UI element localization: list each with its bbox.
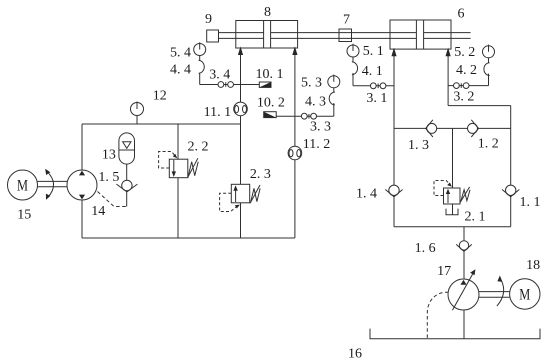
svg-text:10. 1: 10. 1 (256, 67, 284, 82)
wire: dashed drain from pump 17 to tank (427, 292, 448, 339)
wire: dashed drain from pump 14 to accumulator branch (98, 192, 127, 207)
cyl8 left port arrow (238, 46, 243, 55)
svg-text:4. 1: 4. 1 (362, 64, 383, 79)
check valve 1.3 (427, 123, 437, 133)
check valve 1.1 (506, 185, 516, 195)
wire: 3.2 horizontal to cyl6 right port line (448, 85, 488, 87)
flow meter 11.2 (288, 146, 302, 160)
cylinder 8 body (236, 21, 298, 49)
hose arc 4.2 (484, 63, 490, 76)
wire: cyl8 left port down to bottom line (x=240.5) (240, 55, 242, 239)
wire: accumulator branch down to drain point (126, 164, 128, 207)
gauge 12 (131, 103, 144, 116)
svg-text:4. 4: 4. 4 (170, 63, 191, 78)
wire: cyl6 left port line down left column of bridge (393, 56, 395, 227)
coupling 3.2 (454, 83, 460, 89)
svg-text:3. 3: 3. 3 (310, 120, 331, 135)
svg-text:1. 6: 1. 6 (415, 241, 436, 256)
wire: right box bottom line y=226.7 (394, 226, 511, 228)
check valve 1.5 (122, 180, 132, 190)
svg-text:2. 3: 2. 3 (250, 167, 271, 182)
pump 14 (bidirectional) (67, 170, 97, 200)
rotation arrow on shaft 15-14 (47, 171, 54, 197)
wire: 3.4 horizontal line to flag 10.1 (200, 84, 260, 86)
wire: left box left edge through pump 14 (81, 124, 83, 238)
piston rod between cyl8 and cyl6 through block 7 (271, 32, 417, 34)
svg-text:9: 9 (205, 12, 212, 27)
svg-text:2. 2: 2. 2 (188, 140, 209, 155)
flow meter 11.1 (234, 102, 248, 116)
svg-text:M: M (519, 287, 530, 304)
coupling 3.1 (370, 83, 376, 89)
wire: branch down to check 1.6 and pump 17 (463, 227, 465, 339)
wire: right column of bridge x=510.7 (510, 106, 512, 227)
svg-text:2. 1: 2. 1 (465, 209, 486, 224)
svg-text:16: 16 (348, 347, 362, 360)
wire: top horizontal of right box y=105.6 (448, 105, 511, 107)
piston rod left of cyl8 to block 9 (219, 32, 264, 34)
rotation arrow on shaft 17-18 (497, 280, 504, 306)
wire: cyl6 right port line down (447, 56, 449, 106)
svg-text:5. 1: 5. 1 (363, 44, 384, 59)
wire: motor 15 shaft (38, 180, 68, 182)
cyl6 left port arrow (391, 48, 396, 57)
svg-text:18: 18 (526, 258, 540, 273)
svg-text:13: 13 (102, 148, 116, 163)
wire: 3.1 horizontal to cyl6 left port line (353, 85, 394, 87)
tank line 16 (370, 329, 540, 339)
cylinder 6 piston (415, 20, 417, 49)
hose arc 4.4 (199, 60, 205, 73)
svg-text:17: 17 (437, 264, 451, 279)
wire: gauge 12 stem (136, 116, 138, 125)
check valve 1.2 (468, 123, 478, 133)
cylinder 6 body (390, 20, 451, 49)
wire: cyl8 right port down to bottom line (x=294.9) (294, 55, 296, 239)
svg-text:1. 2: 1. 2 (478, 137, 499, 152)
wire: bridge middle horizontal y=128.4 (394, 127, 511, 129)
block 9 on left rod end (207, 30, 219, 42)
pump 17 (variable) (448, 279, 479, 310)
svg-text:15: 15 (17, 208, 31, 223)
svg-text:10. 2: 10. 2 (257, 96, 285, 111)
wire: left box bottom line y=238 (82, 237, 295, 239)
gauge 5.3 (328, 76, 340, 88)
svg-text:3. 4: 3. 4 (209, 68, 230, 83)
gauge 5.2 (483, 46, 495, 58)
svg-text:5. 3: 5. 3 (301, 76, 322, 91)
wire: relief 2.2 branch x=178 (177, 124, 179, 238)
svg-text:1. 5: 1. 5 (98, 170, 119, 185)
wire: bridge middle vertical to relief 2.1 (452, 128, 454, 188)
piston rod right of cyl6 (424, 32, 471, 34)
wire: left box top line y=124 (82, 123, 241, 125)
svg-text:1. 3: 1. 3 (408, 138, 429, 153)
wire: gauge 5.3 chain vertical (333, 103, 335, 116)
cylinder 8 piston (263, 21, 265, 49)
test flag 10.2 (264, 112, 277, 118)
wire: motor 18 shaft (479, 291, 510, 293)
svg-text:3. 1: 3. 1 (366, 91, 387, 106)
cyl6 right port arrow (446, 48, 451, 57)
svg-text:4. 3: 4. 3 (305, 95, 326, 110)
svg-text:3. 2: 3. 2 (453, 90, 474, 105)
svg-text:1. 1: 1. 1 (520, 195, 541, 210)
svg-text:1. 4: 1. 4 (356, 187, 377, 202)
wire: gauge 5.2 chain vertical (488, 74, 490, 86)
relief valve 2.3 (220, 193, 237, 211)
tank symbol under 2.1 (446, 209, 458, 215)
gauge 5.4 (194, 44, 206, 56)
svg-text:11. 2: 11. 2 (303, 137, 330, 152)
cyl8 right port arrow (292, 46, 297, 55)
svg-text:12: 12 (153, 89, 167, 104)
accumulator 13 (119, 133, 135, 164)
wire: relief 2.1 drain into tank symbol (452, 204, 454, 215)
svg-text:8: 8 (264, 5, 271, 20)
relief valve 2.1 (434, 181, 450, 196)
test flag 10.1 (259, 82, 271, 87)
wire: gauge 5.4 chain vertical (199, 73, 201, 85)
hose arc 4.3 (329, 92, 335, 105)
coupling 3.4 (218, 82, 224, 88)
check valve 1.6 (459, 241, 468, 250)
hose arc 4.1 (352, 62, 358, 75)
svg-text:7: 7 (343, 13, 350, 28)
svg-text:6: 6 (458, 7, 465, 22)
block 7 between cylinders (339, 29, 352, 42)
relief valve 2.2 (159, 152, 176, 169)
svg-text:M: M (17, 178, 28, 195)
svg-text:5. 2: 5. 2 (454, 45, 475, 60)
svg-text:5. 4: 5. 4 (170, 46, 191, 61)
gauge 5.1 (347, 45, 359, 57)
svg-text:11. 1: 11. 1 (204, 105, 231, 120)
electric motor 15 (8, 170, 38, 200)
wire: 10.2 line to gauge 5.3 corner (276, 115, 334, 117)
check valve 1.4 (389, 185, 399, 195)
wire: gauge 5.1 chain vertical (352, 73, 354, 86)
svg-text:14: 14 (91, 204, 105, 219)
svg-text:4. 2: 4. 2 (456, 63, 477, 78)
electric motor 18 (510, 279, 540, 309)
coupling 3.3 (301, 113, 307, 119)
